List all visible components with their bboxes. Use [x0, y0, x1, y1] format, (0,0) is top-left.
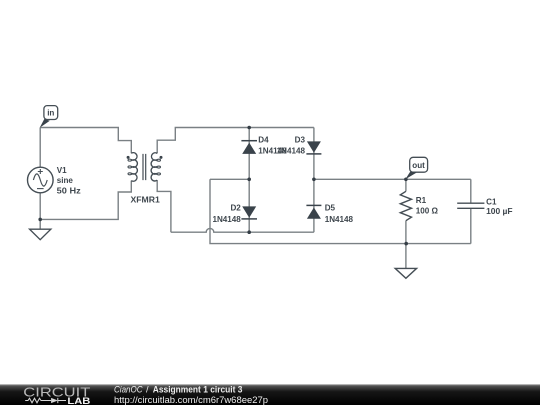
svg-text:V1: V1 — [57, 166, 67, 175]
svg-text:D4: D4 — [258, 135, 269, 144]
svg-text:D2: D2 — [230, 203, 241, 212]
svg-text:/: / — [146, 384, 149, 394]
svg-text:http://circuitlab.com/cm6r7w68: http://circuitlab.com/cm6r7w68ee27p — [114, 395, 268, 405]
svg-text:CianOC: CianOC — [114, 384, 143, 394]
svg-text:sine: sine — [57, 176, 74, 185]
svg-text:D5: D5 — [325, 203, 336, 212]
svg-text:D3: D3 — [295, 135, 306, 144]
svg-text:100 Ω: 100 Ω — [416, 206, 439, 215]
svg-text:1N4148: 1N4148 — [212, 215, 241, 224]
svg-text:XFMR1: XFMR1 — [131, 196, 161, 205]
svg-text:1N4148: 1N4148 — [325, 215, 354, 224]
svg-text:in: in — [47, 109, 54, 118]
svg-text:LAB: LAB — [67, 396, 90, 405]
svg-text:R1: R1 — [416, 196, 427, 205]
svg-text:1N4148: 1N4148 — [277, 146, 306, 155]
svg-text:C1: C1 — [486, 197, 497, 206]
svg-text:50 Hz: 50 Hz — [57, 186, 81, 195]
svg-text:100 µF: 100 µF — [486, 207, 513, 216]
svg-text:out: out — [412, 161, 425, 170]
svg-text:Assignment 1 circuit 3: Assignment 1 circuit 3 — [153, 384, 243, 394]
